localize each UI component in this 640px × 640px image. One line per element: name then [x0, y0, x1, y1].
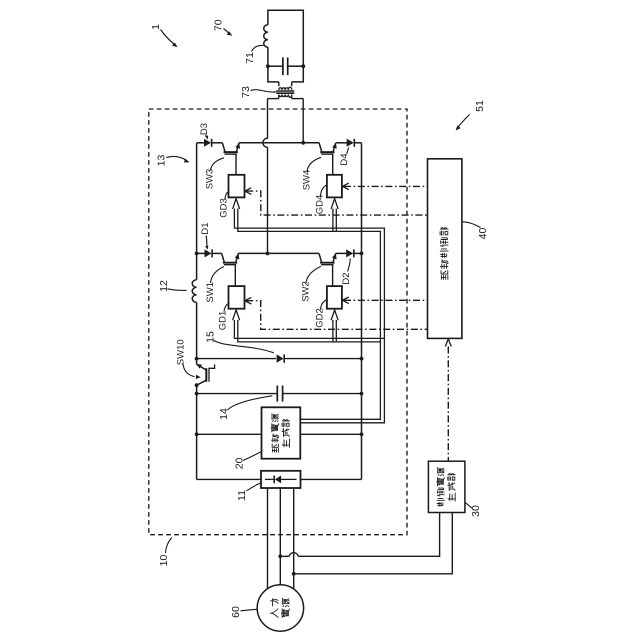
- svg-text:D1: D1: [200, 222, 211, 234]
- svg-text:GD4: GD4: [315, 195, 326, 215]
- svg-text:SW10: SW10: [176, 339, 187, 365]
- svg-text:71: 71: [244, 52, 256, 64]
- svg-text:GD1: GD1: [218, 311, 229, 331]
- svg-text:20: 20: [234, 457, 246, 469]
- svg-text:GD2: GD2: [315, 308, 326, 328]
- svg-text:51: 51: [474, 100, 486, 112]
- svg-text:73: 73: [240, 86, 252, 98]
- svg-text:D2: D2: [341, 272, 352, 284]
- svg-text:30: 30: [470, 505, 482, 517]
- svg-text:D3: D3: [199, 123, 210, 135]
- svg-text:1: 1: [150, 24, 162, 30]
- svg-text:60: 60: [230, 606, 242, 618]
- svg-text:40: 40: [477, 228, 489, 240]
- svg-text:12: 12: [158, 280, 170, 292]
- svg-text:11: 11: [236, 490, 248, 501]
- svg-text:GD3: GD3: [219, 198, 230, 218]
- svg-text:SW2: SW2: [301, 281, 312, 302]
- svg-text:10: 10: [158, 555, 170, 567]
- svg-text:D4: D4: [339, 153, 350, 165]
- svg-text:SW1: SW1: [205, 282, 216, 303]
- svg-text:70: 70: [213, 19, 225, 31]
- svg-text:13: 13: [155, 155, 167, 167]
- svg-text:SW3: SW3: [205, 169, 216, 190]
- svg-text:SW4: SW4: [302, 170, 313, 191]
